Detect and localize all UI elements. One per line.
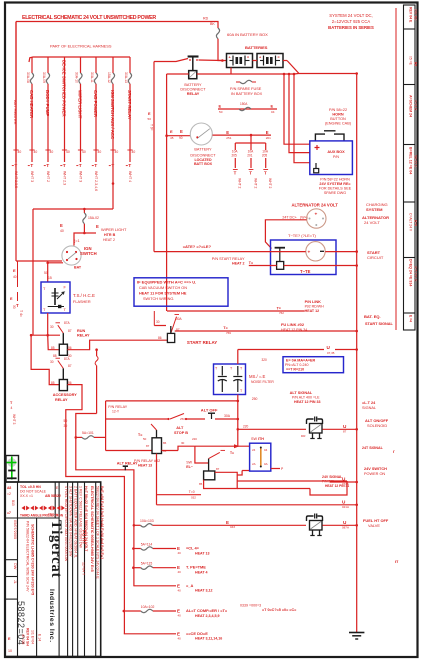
relay R1 coil [59,333,67,355]
wire alt signal [237,395,239,397]
svg-text:1: 1 [56,513,58,517]
wire box out [271,467,284,471]
wire stub bus [294,73,299,76]
label pn start relay [212,257,245,266]
label alt off [201,408,218,413]
svg-text:205: 205 [262,154,268,158]
label 50 30 [64,419,68,428]
svg-text:=L.T 24: =L.T 24 [362,401,376,405]
svg-text:ELECTRICAL SCHEMATIC 905E/LH9: ELECTRICAL SCHEMATIC 905E/LH985 24V E=5 [90,486,94,573]
svg-text:50: 50 [143,437,147,441]
svg-text:032: 032 [191,496,196,500]
wire y482 [330,481,358,484]
svg-text:50: 50 [219,110,223,114]
svg-text:40 035: 40 035 [21,634,25,644]
svg-text:CAB HEATER: CAB HEATER [29,90,34,119]
svg-text:(ENGINE CAB): (ENGINE CAB) [325,122,352,126]
svg-text:RELAY: RELAY [187,92,200,96]
svg-text:5A=115: 5A=115 [141,562,153,566]
svg-text:04: 04 [264,448,268,452]
svg-text:P/N LINK: P/N LINK [305,300,322,304]
label charging system [366,202,388,212]
svg-text:(=1: (=1 [74,239,80,243]
wire left drop [32,209,34,335]
junction b [46,334,49,337]
svg-text:201: 201 [247,154,253,158]
wire aux feeds [283,73,310,163]
svg-text:WIPER LIGHT: WIPER LIGHT [78,90,83,119]
wire ign bottom [46,262,63,283]
svg-text:07,35: 07,35 [327,351,335,355]
svg-text:E: E [96,224,99,229]
svg-text:40: 40 [60,229,64,233]
relay K3 coil [151,424,162,454]
wire acc jog [76,414,134,586]
svg-text:T: T [14,163,17,169]
svg-text:5A=101: 5A=101 [82,431,94,435]
ignition switch [62,246,81,265]
label 24v sig [362,446,384,450]
wire fuel heat [133,524,306,527]
svg-text:05 =E: 05 =E [409,56,413,66]
flasher internals [43,286,67,313]
svg-text:12=04 T: 12=04 T [82,562,86,576]
label 15A [88,216,99,220]
label battery disconnect relay [180,83,206,96]
svg-text:87A: 87A [64,321,71,325]
svg-text:XX.X =1: XX.X =1 [20,494,33,498]
wire relay1 coil feed [48,335,60,350]
svg-text:RELAY: RELAY [77,334,90,338]
svg-text:0=E =04 E=14 0=5 H=44 E=0: 0=E =04 E=14 0=5 H=44 E=04 4=4 0=5 E=1 [100,486,104,559]
svg-text:IN BATTERY BOX: IN BATTERY BOX [231,92,263,96]
svg-text:START SIGNAL: START SIGNAL [365,322,394,326]
svg-text:24: 24 [252,448,256,452]
svg-text:3 ALT SHUTDOWN SW ADD 04/02/2: 3 ALT SHUTDOWN SW ADD 04/02/2005 DW [68,486,72,557]
svg-text:SOLENOID: SOLENOID [367,423,387,428]
label 5A? [243,425,249,429]
wire icon2 to bus [323,524,359,527]
svg-text:AB 58822: AB 58822 [45,494,61,498]
svg-text:E: E [13,268,16,273]
glyph U conn4 [342,477,349,487]
svg-text:P/N SPARE FUSE: P/N SPARE FUSE [230,87,262,91]
title text UNSWITCHED POWER [22,15,156,21]
fuse 60A battery box [216,28,219,39]
svg-text:87A: 87A [64,357,71,361]
svg-text:A8: A8 [7,486,11,490]
note text [137,280,196,302]
svg-text:40: 40 [34,150,38,154]
equalizer stud [275,248,285,270]
label aux box [327,150,345,159]
svg-text:#92 RD/WH: #92 RD/WH [305,305,325,309]
svg-text:87: 87 [68,364,72,368]
label pn relay02 [134,459,160,468]
fused wire x130 [124,57,135,182]
svg-text:T~TE? (?LE=T): T~TE? (?LE=T) [288,233,317,238]
svg-text:WHT 2,3,5: WHT 2,3,5 [14,171,18,188]
label E40 [60,223,64,233]
svg-text:T: T [46,163,49,169]
battery B1 [227,54,253,68]
label battery cable [183,244,212,249]
svg-text:58822=04 REV 04 SHEET 1 OF 1: 58822=04 REV 04 SHEET 1 OF 1 SCALE NTS 2… [95,486,99,579]
label 24vdc [282,215,307,219]
svg-text:BATTERIES IN SERIES: BATTERIES IN SERIES [328,25,374,30]
node ign feed [83,232,86,235]
svg-text:0A: 0A [264,462,268,466]
wire relay1 out [67,340,167,350]
wire sub top [195,444,250,448]
svg-text:P/N 58=22 HORN: P/N 58=22 HORN [320,178,350,182]
ground symbol [349,633,364,640]
svg-text:+: + [315,213,318,218]
svg-text:SWITCH WIRING.: SWITCH WIRING. [143,297,174,301]
svg-text:B10: B10 [11,500,15,506]
svg-text:FLASHER: FLASHER [73,300,91,304]
glyph T arrow2 [277,307,285,316]
wire y495 [157,490,202,500]
svg-text:JL: JL [13,580,17,584]
svg-text:==CE DO=E: ==CE DO=E [186,631,208,636]
title small texts [7,485,65,518]
svg-text:40: 40 [178,570,182,574]
svg-text:Tigercat: Tigercat [48,520,64,578]
pn column [26,521,35,595]
orange wire [260,447,262,468]
svg-text:0=14 E: 0=14 E [413,100,417,111]
wire left drop2 [31,335,59,384]
svg-text:30: 30 [181,441,185,445]
svg-text:30: 30 [50,360,54,364]
glyph T arrow3 [249,261,253,265]
wire alt feed [265,220,306,249]
left cell bottom marks [8,637,12,653]
svg-text:BK: BK [210,22,215,26]
label run relay [77,329,90,338]
svg-text:ACCESSORY: ACCESSORY [53,393,77,397]
svg-text:CAB POWER: CAB POWER [93,90,98,118]
alternator G1 [307,209,326,228]
wire icon to bus [301,428,358,438]
svg-text:90: 90 [179,136,183,140]
wire diagonal disconnect [154,59,188,62]
svg-text:052: 052 [48,513,54,517]
label alt relay [117,462,138,466]
capacitors C1 C2 [215,366,243,393]
svg-text:A=SCHEM 24: A=SCHEM 24 [409,95,413,117]
label system 24 volt [328,13,374,30]
svg-text:SW: SW [251,437,257,441]
label heat right [322,475,349,488]
svg-text:WHT 2,3: WHT 2,3 [62,171,66,185]
label E fuel [226,520,235,529]
label pn fu link [305,300,325,313]
svg-text:EL~: EL~ [186,465,193,469]
svg-text:4 FUEL HEATER CIRCUIT ADD 05/: 4 FUEL HEATER CIRCUIT ADD 05/07/2005 DW [64,486,68,562]
svg-text:087A: 087A [342,526,349,530]
svg-text:5A=114: 5A=114 [141,543,153,547]
svg-text:STOP B: STOP B [174,431,188,435]
svg-text:HEAT 2,3,4,5,9: HEAT 2,3,4,5,9 [195,614,220,618]
wire relay2 out [66,385,125,634]
fuse 15A ign [83,213,86,224]
svg-text:PN=ALT 0-240: PN=ALT 0-240 [285,363,309,367]
wire eq lower [249,264,358,267]
svg-text:762: 762 [279,311,284,315]
svg-text:85: 85 [199,482,203,486]
svg-text:45: 45 [170,136,174,140]
svg-text:043: 043 [230,525,235,529]
svg-text:HEAT 12: HEAT 12 [305,309,320,313]
svg-text:T=: T= [223,326,227,330]
svg-text:T: T [234,171,237,176]
label fu link 02 [281,322,307,332]
junction r1 [95,348,98,351]
svg-text:40: 40 [13,275,17,279]
wire to disc circle [165,134,190,137]
svg-text:4: 4 [11,406,13,410]
svg-text:HEAT 12 PIN 33: HEAT 12 PIN 33 [294,400,321,404]
svg-text:H=T 58=22 S=E 914 58822=04: H=T 58=22 S=E 914 58822=04 24 VOLT [84,486,88,552]
wire y400 [106,400,238,402]
svg-text:30: 30 [12,305,16,309]
svg-text:=ATE? =?=LE?: =ATE? =?=LE? [183,244,212,249]
svg-text:T=: T= [138,433,142,437]
svg-text:DE-ICE SWITCHED POWER: DE-ICE SWITCHED POWER [62,60,67,118]
svg-text:WHT 3: WHT 3 [12,414,16,425]
svg-text:05/07/2005: 05/07/2005 [13,520,17,539]
svg-text:BUTTON: BUTTON [330,117,346,121]
eng text [285,359,316,372]
logo tigercat [48,520,64,578]
fused wire x32 [26,57,37,182]
svg-text:E: E [226,130,229,135]
svg-text:TOL =0.5 HN: TOL =0.5 HN [20,485,41,489]
svg-text:ELECTRICAL SCHEMATIC 24 VOLT U: ELECTRICAL SCHEMATIC 24 VOLT UNSWITCHED … [22,15,156,21]
wire top feed [167,22,218,29]
svg-text:AL=T COMP.=ER / =T=: AL=T COMP.=ER / =T= [186,608,228,613]
fused wire x16 [12,22,22,262]
label 10A-103 [140,519,154,523]
wire node right [84,232,96,234]
svg-text:WHT 2: WHT 2 [46,171,50,182]
svg-text:0=5 24V E: 0=5 24V E [413,266,417,282]
branch y585 [133,583,212,593]
svg-text:NOISE FILTER: NOISE FILTER [251,380,274,384]
wire relay3 out [162,446,195,450]
svg-text:85: 85 [51,346,55,350]
svg-text:SYSTEM 24 VOLT DC,: SYSTEM 24 VOLT DC, [329,13,372,18]
svg-text:2 BATT EQUALIZER ADD. H=EAT 0: 2 BATT EQUALIZER ADD. H=EAT 03/2004 JL [73,486,77,558]
label E251 [226,130,231,140]
svg-text:P/N 58=22: P/N 58=22 [329,108,347,112]
label flasher [73,293,95,304]
svg-text:T=: T= [277,307,281,311]
svg-text:30A: 30A [224,414,231,418]
svg-text:50: 50 [64,419,68,423]
svg-text:B4: B4 [413,62,417,66]
switch contacts blue [252,448,268,466]
svg-text:0339 =000=3: 0339 =000=3 [240,604,261,608]
svg-text:021A: 021A [342,505,349,509]
wire ign aux route [33,208,113,210]
svg-text:40: 40 [18,150,22,154]
svg-text:BATTERY: BATTERY [194,148,212,152]
svg-text:60A IN BATTERY BOX: 60A IN BATTERY BOX [227,32,268,37]
wire flasher down [47,313,49,335]
green locator symbol [7,457,17,480]
svg-text:15A-02: 15A-02 [88,216,99,220]
glyph U conn5 [342,520,349,530]
svg-text:CIRCUIT: CIRCUIT [367,255,384,260]
svg-text:RUN: RUN [77,329,86,333]
label t arrows relay3 [138,433,147,441]
splitter branches [232,143,273,189]
svg-text:ALT: ALT [176,426,184,430]
svg-text:HORN: HORN [332,113,343,117]
svg-text:85: 85 [163,449,167,453]
wire to battery box 1 [218,39,227,61]
svg-text:88: 88 [53,354,57,358]
aux pin [314,163,319,173]
label caps [249,374,274,384]
label r2 pins [51,381,72,385]
svg-text:250: 250 [180,417,185,421]
junction fuse line [75,436,78,439]
svg-text:P/N ALT 400 =LE: P/N ALT 400 =LE [292,396,320,400]
svg-text:E: E [180,129,183,134]
red mark right2 [395,559,399,564]
fused wire x80 [75,57,86,182]
wire u link [238,349,324,351]
svg-text:HEAT 2: HEAT 2 [232,262,245,266]
svg-text:40: 40 [115,150,119,154]
svg-text:P/N: P/N [333,155,339,159]
label 32 [262,358,268,362]
svg-text:Industries Inc.: Industries Inc. [48,589,55,643]
cluster pin labels [146,417,234,486]
svg-text:E: E [170,129,173,134]
svg-text:30: 30 [50,325,54,329]
svg-text:15: 15 [48,276,52,280]
svg-text:24V DC: 24V DC [413,9,417,21]
svg-text:220: 220 [192,437,197,441]
wire acc bus down [95,350,98,414]
svg-text:86: 86 [163,441,167,445]
svg-text:30A-11: 30A-11 [90,72,94,83]
svg-text:E= 0A MA=A=ER: E= 0A MA=A=ER [286,359,316,363]
svg-text:T: T [264,171,267,176]
horn button [315,131,344,141]
label horn button [325,108,352,126]
wire ign fuse drop [83,209,85,213]
branch4 extra [240,604,297,613]
svg-text:40: 40 [50,150,54,154]
wire run bus [30,334,60,337]
svg-text:PART OF ELECTRICAL HARNESS: PART OF ELECTRICAL HARNESS [50,44,112,49]
fuse spare stub [236,80,256,83]
highlight box note [134,278,228,306]
fused wire x96 [90,57,101,191]
svg-text:T 9=: T 9= [150,124,154,131]
wire batt fuse line [218,102,277,114]
wire stud to battery [189,59,222,61]
svg-text:12-Y: 12-Y [112,410,120,414]
red mark right1 [393,449,395,454]
svg-text:86: 86 [158,336,162,340]
equalizer circle [306,242,325,261]
wire b1 ground stub [230,68,232,75]
main bus right [356,74,358,633]
label wiper light htr [96,224,127,242]
wire start cable [154,251,306,253]
svg-text:POWER ON: POWER ON [364,472,385,476]
label start relay bold [187,340,217,345]
svg-text:FU LINK #02: FU LINK #02 [281,322,305,327]
svg-text:E: E [219,104,222,109]
svg-text:START RELAY: START RELAY [187,340,217,345]
svg-text:T 4=: T 4= [19,310,23,317]
svg-text:87: 87 [146,444,150,448]
wire x154 [148,62,155,252]
svg-text:VALVE: VALVE [368,523,380,528]
label stud pins [156,317,183,340]
svg-text:=2: =2 [7,492,11,496]
svg-text:=CL 4=: =CL 4= [186,546,200,551]
wire fuse437 [76,436,106,439]
wire relay3 bottom [156,454,158,505]
part number 58822 [16,601,26,645]
svg-text:RD: RD [203,17,209,21]
svg-text:30: 30 [64,424,68,428]
svg-text:WHT 2: WHT 2 [238,178,242,189]
stud alt relay [123,466,128,470]
wire between batteries [253,60,258,62]
junction fuse15 [83,208,86,211]
battery disconnect stud [188,57,199,79]
branch y567 [132,562,207,575]
glyph U conn1 [327,345,335,355]
wire y429 [238,428,306,430]
wire sub loops [204,472,347,495]
label fuel heat off [363,518,389,528]
svg-text:220: 220 [243,425,249,429]
relay icon K2 [307,514,323,536]
svg-text:T: T [94,163,97,169]
svg-text:04: 04 [271,110,275,114]
junction main bus top [355,72,358,75]
svg-text:T=0: T=0 [189,490,195,494]
svg-text:WHT 2,3,4,6: WHT 2,3,4,6 [94,171,98,191]
svg-text:87: 87 [216,467,220,471]
svg-text:SPARE DWG: SPARE DWG [324,191,346,195]
svg-text:P/N START RELAY: P/N START RELAY [212,257,245,261]
svg-text:87: 87 [68,329,72,333]
svg-text:1/1 E=04: 1/1 E=04 [31,630,35,644]
svg-text:HEAT 13: HEAT 13 [195,551,210,555]
label 60A IN BATTERY BOX [227,32,268,37]
svg-text:T. PE=TME: T. PE=TME [186,565,206,570]
svg-text:T: T [79,163,82,169]
harness bus [29,57,130,62]
label E disc [170,129,183,140]
svg-text:T=: T= [249,261,253,265]
switch alt stop [106,413,238,420]
svg-text:E: E [266,130,269,135]
svg-text:C=ALT 24 V: C=ALT 24 V [409,213,413,232]
